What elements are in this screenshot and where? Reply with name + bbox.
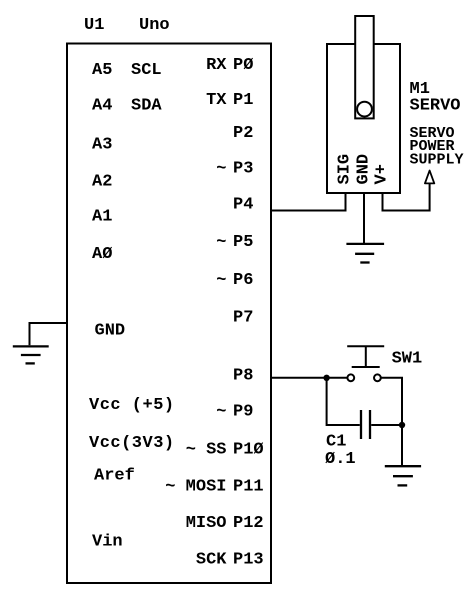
- svg-text:Aref: Aref: [94, 466, 135, 485]
- wire C1 right branch: [371, 424, 402, 426]
- svg-text:Ø.1: Ø.1: [325, 450, 356, 469]
- svg-text:SERVO: SERVO: [410, 97, 461, 116]
- svg-text:A2: A2: [92, 172, 112, 191]
- svg-text:Uno: Uno: [139, 16, 170, 35]
- capacitor C1: [361, 410, 370, 439]
- svg-text:PØ: PØ: [233, 56, 253, 75]
- svg-text:P11: P11: [233, 478, 264, 497]
- svg-text:Vin: Vin: [92, 532, 123, 551]
- node junction C1/ground: [399, 422, 405, 428]
- svg-text:P2: P2: [233, 124, 253, 143]
- svg-text:MISO: MISO: [186, 514, 227, 533]
- ground (left, U1 GND): [13, 346, 49, 363]
- svg-text:P6: P6: [233, 271, 253, 290]
- IC U1 Arduino Uno body: [67, 44, 271, 584]
- svg-text:GND: GND: [95, 321, 126, 340]
- svg-text:A3: A3: [92, 136, 112, 155]
- svg-text:P4: P4: [233, 196, 253, 215]
- svg-text:~: ~: [216, 271, 226, 290]
- svg-text:P1Ø: P1Ø: [233, 441, 264, 460]
- svg-text:U1: U1: [84, 16, 104, 35]
- svg-text:SDA: SDA: [131, 96, 162, 115]
- svg-text:SCL: SCL: [131, 61, 162, 80]
- servo M1 arm hub circle: [357, 102, 372, 117]
- servo M1 arm: [355, 16, 374, 118]
- svg-text:P8: P8: [233, 367, 253, 386]
- svg-text:~ SS: ~ SS: [186, 441, 227, 460]
- svg-text:P9: P9: [233, 403, 253, 422]
- svg-text:P12: P12: [233, 514, 264, 533]
- wire C1 left branch: [327, 378, 360, 425]
- svg-text:A1: A1: [92, 208, 112, 227]
- ground (right, SW1/C1): [385, 466, 421, 485]
- svg-text:A4: A4: [92, 97, 112, 116]
- svg-text:TX: TX: [206, 91, 227, 110]
- svg-text:P1: P1: [233, 91, 253, 110]
- svg-text:Vcc (+5): Vcc (+5): [89, 396, 175, 415]
- svg-text:SCK: SCK: [196, 551, 227, 570]
- svg-text:A5: A5: [92, 61, 112, 80]
- svg-text:~: ~: [216, 233, 226, 252]
- wire servo GND pin to ground: [363, 193, 365, 244]
- power terminal arrow (servo power supply): [425, 171, 434, 184]
- wire U1.GND to ground: [30, 323, 68, 345]
- svg-text:C1: C1: [326, 432, 346, 451]
- svg-text:SIG: SIG: [336, 154, 355, 185]
- svg-text:RX: RX: [206, 56, 227, 75]
- ground (servo): [346, 244, 384, 263]
- wire servo V+ pin to power arrow: [383, 183, 430, 210]
- svg-text:SW1: SW1: [392, 349, 423, 368]
- svg-text:AØ: AØ: [92, 245, 112, 264]
- wire SW1 right terminal down to ground: [381, 378, 402, 466]
- svg-text:P5: P5: [233, 233, 253, 252]
- svg-text:~ MOSI: ~ MOSI: [165, 478, 226, 497]
- svg-text:SUPPLY: SUPPLY: [410, 152, 464, 169]
- wire U1.P4 to servo SIG: [271, 193, 346, 211]
- svg-text:Vcc(3V3): Vcc(3V3): [89, 434, 175, 453]
- wire U1.P8 to SW1 left terminal: [271, 377, 347, 379]
- svg-text:GND: GND: [355, 154, 374, 185]
- node junction P8/C1: [323, 375, 329, 381]
- svg-text:P7: P7: [233, 309, 253, 328]
- svg-text:V+: V+: [373, 164, 392, 184]
- svg-text:P13: P13: [233, 551, 264, 570]
- switch SW1: [347, 346, 384, 381]
- servo M1 body: [327, 44, 400, 193]
- svg-text:~: ~: [216, 160, 226, 179]
- svg-text:P3: P3: [233, 160, 253, 179]
- svg-text:~: ~: [216, 403, 226, 422]
